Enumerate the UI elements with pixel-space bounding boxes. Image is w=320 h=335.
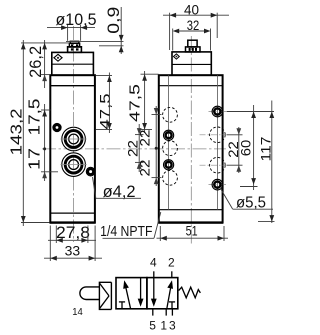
symbol port 5 stub — [152, 309, 154, 316]
symbol return spring — [179, 287, 201, 298]
side view internal vertical line left — [168, 75, 170, 210]
svg-text:1: 1 — [160, 319, 167, 333]
svg-text:0,9: 0,9 — [105, 7, 123, 34]
side view hidden port circles right column — [210, 127, 226, 143]
symbol port 2 stub — [171, 271, 173, 277]
side view centerline vertical — [190, 36, 192, 246]
side view flange line — [159, 209, 223, 211]
side view button top tier — [188, 40, 197, 47]
svg-text:22: 22 — [137, 159, 153, 176]
svg-text:17: 17 — [27, 148, 44, 170]
svg-text:33: 33 — [65, 244, 81, 260]
front view body bottom thick edge — [50, 221, 95, 223]
front view horizontal centerline y149 — [42, 148, 226, 150]
side view internal vertical line right — [216, 75, 218, 210]
symbol left square flow path diagonal arrow — [125, 283, 131, 309]
side view screw centerline marks — [209, 111, 227, 113]
front view cap internal line — [52, 63, 94, 65]
front view port centerlines — [61, 138, 87, 140]
side view screw hole left lower — [164, 160, 174, 170]
front view manual button mid tier — [69, 43, 79, 47]
symbol right square diagonal arrow to port2 — [167, 283, 172, 309]
front view manual button lower tier — [68, 47, 82, 53]
side view button lower tier — [186, 47, 201, 52]
side view screw hole right lower — [212, 179, 223, 190]
front view port circle lower — [62, 153, 86, 177]
front view flange line y213 — [50, 212, 95, 214]
front view centerline vertical — [73, 26, 75, 242]
side view main body — [159, 75, 223, 222]
side view screw hole left upper — [164, 130, 174, 140]
side view body seam line — [159, 85, 223, 87]
front view manual button top plate — [70, 41, 79, 43]
svg-text:22: 22 — [137, 129, 153, 146]
symbol right square blocked port T — [169, 301, 175, 303]
svg-text:1/4 NPTF: 1/4 NPTF — [100, 223, 152, 240]
symbol left square down arrow — [140, 278, 142, 301]
svg-text:5: 5 — [149, 319, 156, 333]
svg-text:14: 14 — [72, 306, 83, 318]
side view bottom thick edge — [158, 221, 223, 223]
symbol port 1 stub — [165, 309, 167, 316]
front view port circle upper — [62, 127, 86, 151]
front view cap diamond mark — [54, 54, 62, 61]
svg-text:47,5: 47,5 — [128, 84, 144, 122]
front view screw hole lower-right — [86, 167, 95, 176]
svg-text:2: 2 — [168, 255, 175, 269]
symbol pushbutton actuator box — [99, 282, 111, 309]
symbol left square blocked port T — [119, 301, 125, 303]
symbol manual pushbutton pill — [80, 287, 99, 300]
symbol valve body right square — [147, 278, 178, 309]
svg-text:17,5: 17,5 — [27, 98, 44, 135]
side view hidden port centerline marks — [200, 134, 227, 136]
svg-text:51: 51 — [186, 223, 198, 239]
front view body seam line y85.7 — [50, 85, 95, 87]
front view main body — [50, 75, 95, 222]
side view hidden port circles left column — [163, 107, 178, 122]
svg-text:4: 4 — [150, 255, 157, 269]
side view cap diamond mark — [174, 54, 180, 59]
symbol valve body left square — [116, 278, 147, 309]
svg-text:3: 3 — [169, 319, 176, 333]
front view cap body — [52, 52, 94, 75]
front view screw hole upper-left — [53, 123, 61, 131]
side view screw hole right upper — [212, 106, 223, 117]
svg-text:60: 60 — [238, 140, 253, 157]
symbol right square down arrow from port4 — [153, 271, 155, 300]
symbol port 3 stub — [171, 309, 173, 316]
side view cap internal line — [172, 63, 211, 65]
svg-text:26,2: 26,2 — [27, 46, 45, 78]
side view cap — [172, 52, 211, 75]
